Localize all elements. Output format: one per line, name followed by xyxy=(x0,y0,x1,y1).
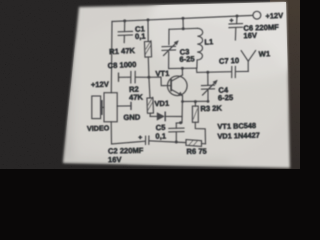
wire emitter down xyxy=(182,96,184,102)
capacitor C2 xyxy=(138,135,186,145)
capacitor C7 xyxy=(232,67,249,78)
wire tank left upper xyxy=(168,29,170,44)
modulator box xyxy=(104,93,117,122)
capacitor C5 xyxy=(169,123,184,144)
node R1 tap xyxy=(147,18,150,21)
wire tank top xyxy=(169,28,198,29)
wire tank bottom xyxy=(169,67,197,69)
wire tank left lower xyxy=(168,52,170,69)
wire R3 bottom link xyxy=(195,122,205,144)
terminal +12V xyxy=(253,11,261,19)
transistor VT1 xyxy=(164,75,188,96)
antenna W1 xyxy=(241,51,255,72)
video connector xyxy=(92,96,104,119)
wire junction to base xyxy=(149,77,164,86)
node tank tap xyxy=(182,17,185,20)
wire emitter to C5 node xyxy=(176,102,182,124)
capacitor C3 variable xyxy=(162,40,179,55)
wire collector to tank xyxy=(181,68,183,75)
wire emitter rail xyxy=(183,100,209,102)
node C6 tap xyxy=(236,15,239,18)
capacitor C4 variable xyxy=(202,72,218,101)
diode VD1 xyxy=(150,112,182,120)
wire top +12V rail xyxy=(112,15,253,21)
photo grain overlay xyxy=(0,0,300,169)
wire box to bottom rail xyxy=(111,122,145,144)
wire tank to C7 xyxy=(197,68,232,72)
resistor R3 xyxy=(192,100,198,122)
resistor R6 xyxy=(186,140,206,147)
paper sheet xyxy=(63,2,290,168)
wire left supply rail xyxy=(110,22,113,93)
capacitor C8 xyxy=(119,71,149,83)
node tank top xyxy=(182,27,185,30)
node collector tap xyxy=(181,67,184,70)
gnd stub xyxy=(117,103,131,110)
node C8/R1/R2 junction xyxy=(147,76,150,79)
resistor R2 xyxy=(147,77,154,116)
capacitor C6 xyxy=(229,16,243,40)
resistor R1 xyxy=(144,20,151,77)
node C1 tap xyxy=(123,19,126,22)
inductor L1 xyxy=(197,28,203,68)
capacitor C1 xyxy=(118,21,132,43)
dark surround xyxy=(0,0,300,169)
wire rail to tank xyxy=(182,18,184,28)
